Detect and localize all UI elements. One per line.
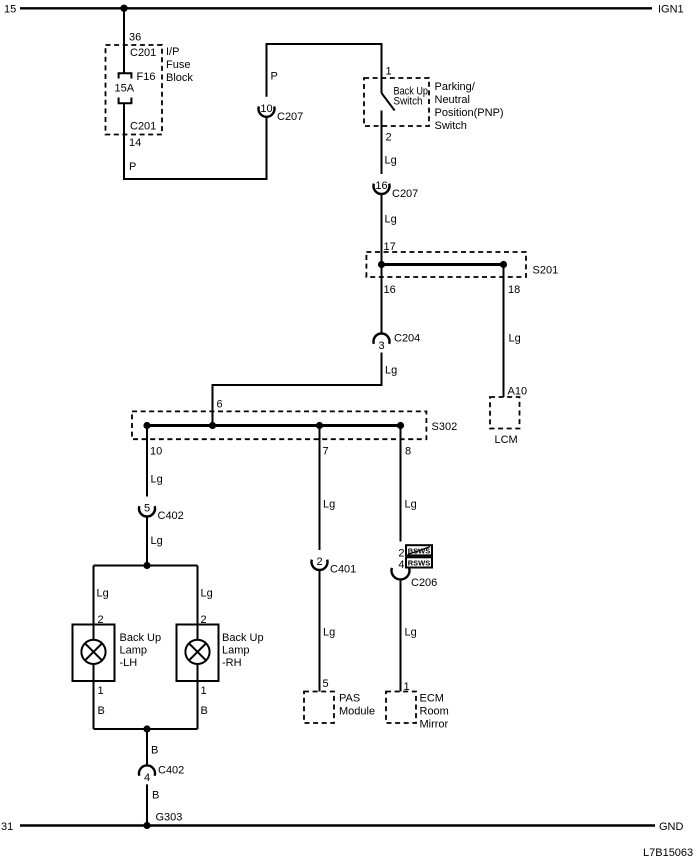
svg-text:Switch: Switch (435, 120, 467, 132)
lamp LH bulb circle (81, 640, 105, 664)
svg-text:PAS: PAS (339, 693, 360, 705)
junction on IGN1 rail (120, 5, 127, 12)
svg-text:8: 8 (405, 446, 411, 458)
wire GND bottom rail (20, 824, 655, 826)
wire P from fuse down and right to C207 (124, 103, 267, 179)
svg-text:IGN1: IGN1 (658, 4, 684, 16)
lamp LH internal wires (93, 625, 95, 730)
wire IGN1 top rail (20, 7, 652, 9)
svg-text:I/P: I/P (166, 46, 179, 58)
svg-text:C201: C201 (130, 47, 156, 59)
wire from tee to C402-4 (146, 729, 148, 765)
svg-text:10: 10 (260, 103, 272, 115)
svg-text:1: 1 (386, 66, 392, 78)
wire lamp bottom tee (94, 728, 198, 730)
svg-text:C204: C204 (394, 333, 420, 345)
svg-text:ECM: ECM (420, 693, 444, 705)
connector C207 pin 16 cup (374, 184, 390, 194)
wire from C402 to lamp tee (146, 517, 148, 566)
svg-text:-RH: -RH (222, 657, 242, 669)
svg-text:G303: G303 (156, 812, 183, 824)
svg-text:4: 4 (398, 559, 404, 571)
svg-text:6: 6 (217, 399, 223, 411)
junction G303 (143, 822, 150, 829)
svg-text:C207: C207 (277, 111, 303, 123)
svg-text:B: B (98, 705, 105, 717)
svg-text:Lg: Lg (405, 499, 417, 511)
svg-text:C401: C401 (330, 564, 356, 576)
switch lower contact wire (381, 111, 383, 175)
svg-text:Lg: Lg (385, 365, 397, 377)
junction S302 pin6 (209, 422, 216, 429)
svg-text:C201: C201 (130, 121, 156, 133)
svg-text:31: 31 (1, 821, 13, 833)
connector C207 pin 10 cup (259, 106, 275, 116)
svg-text:F16: F16 (137, 71, 156, 83)
wire from S302 pin8 down (400, 426, 402, 542)
svg-text:P: P (271, 71, 278, 83)
svg-text:S201: S201 (533, 265, 559, 277)
wire from C402-4 to ground (146, 784, 148, 825)
svg-text:2: 2 (398, 548, 404, 560)
svg-text:10: 10 (150, 446, 162, 458)
connector C402 pin 5 cup (139, 506, 155, 516)
svg-text:Back Up: Back Up (222, 632, 264, 644)
connector C204 pin 3 cup (374, 334, 390, 344)
svg-text:Switch: Switch (394, 96, 423, 108)
lamp RH internal wires (197, 625, 199, 730)
svg-text:3: 3 (378, 340, 384, 352)
Back Up Lamp LH box (73, 625, 115, 682)
svg-text:Room: Room (420, 706, 449, 718)
svg-text:Lg: Lg (385, 214, 397, 226)
wire to RH lamp (197, 566, 199, 625)
svg-text:B: B (152, 790, 159, 802)
svg-text:C206: C206 (411, 577, 437, 589)
lamp LH bulb X (85, 643, 102, 660)
svg-text:P: P (129, 161, 136, 173)
svg-text:Lg: Lg (323, 499, 335, 511)
junction S302 pin8 (397, 422, 404, 429)
svg-text:Lg: Lg (151, 474, 163, 486)
wire from C206 to ECM (400, 580, 402, 692)
svg-text:Lg: Lg (323, 627, 335, 639)
I/P Fuse Block dashed box (106, 45, 163, 135)
wire from C401 to PAS (319, 570, 321, 692)
svg-text:Module: Module (339, 706, 375, 718)
ECM Room Mirror dashed box (386, 692, 416, 724)
connector C402 pin 4 cup (139, 765, 155, 775)
LCM dashed box (490, 397, 520, 429)
svg-text:Back Up: Back Up (120, 632, 162, 644)
connector C206 cup (391, 568, 409, 580)
svg-text:C207: C207 (392, 188, 418, 200)
svg-text:Fuse: Fuse (166, 59, 190, 71)
svg-text:RSWS: RSWS (408, 559, 431, 568)
lamp RH bulb X (189, 643, 206, 660)
svg-text:14: 14 (129, 137, 141, 149)
wire from C204 down left to S302 (213, 353, 382, 426)
splice S302 dashed box (132, 411, 426, 439)
svg-text:GND: GND (659, 821, 684, 833)
svg-text:16: 16 (384, 284, 396, 296)
tag RSWS (406, 557, 432, 567)
svg-text:Block: Block (166, 72, 193, 84)
svg-text:15A: 15A (115, 83, 135, 95)
junction lamp tee (143, 562, 150, 569)
svg-text:5: 5 (144, 503, 150, 515)
svg-text:15: 15 (4, 4, 16, 16)
wire lamp top tee (94, 565, 198, 567)
svg-text:Lamp: Lamp (120, 645, 148, 657)
Back Up Switch dashed box (364, 78, 429, 126)
wire from S302 pin7 down (319, 426, 321, 551)
svg-text:Lg: Lg (151, 535, 163, 547)
svg-text:2: 2 (316, 556, 322, 568)
svg-text:5: 5 (323, 678, 329, 690)
svg-text:B: B (201, 705, 208, 717)
svg-text:1: 1 (201, 685, 207, 697)
connector C401 pin 2 cup (311, 560, 327, 570)
svg-text:7: 7 (323, 446, 329, 458)
Back Up Lamp RH box (177, 625, 219, 682)
splice S201 bus wire (382, 263, 504, 266)
svg-text:Lg: Lg (405, 627, 417, 639)
svg-text:Parking/: Parking/ (435, 81, 476, 93)
svg-text:Position(PNP): Position(PNP) (435, 107, 504, 119)
svg-text:Neutral: Neutral (435, 94, 470, 106)
svg-text:A10: A10 (508, 386, 528, 398)
wire from C207 up and right to PNP switch (267, 44, 382, 97)
svg-text:-LH: -LH (120, 657, 138, 669)
junction S201 right (500, 261, 507, 268)
fuse F16 symbol bottom bracket (119, 98, 132, 104)
svg-text:1: 1 (98, 685, 104, 697)
svg-text:2: 2 (386, 132, 392, 144)
wire from S201 to LCM (503, 265, 505, 398)
svg-text:C402: C402 (158, 510, 184, 522)
svg-text:4: 4 (144, 772, 150, 784)
svg-text:18: 18 (508, 284, 520, 296)
wire from C207-16 to C204 (381, 194, 383, 334)
splice S201 dashed box (366, 252, 526, 277)
fuse F16 symbol top bracket (119, 73, 132, 78)
PAS Module dashed box (304, 692, 334, 724)
svg-text:Lg: Lg (385, 155, 397, 167)
svg-text:LCM: LCM (495, 434, 518, 446)
tag BSWS (struck) (406, 545, 432, 555)
wire to LH lamp (93, 566, 95, 625)
svg-text:Lg: Lg (201, 588, 213, 600)
wire from rail to fuse (123, 8, 125, 73)
lamp RH bulb circle (185, 640, 209, 664)
svg-text:36: 36 (129, 32, 141, 44)
svg-text:S302: S302 (432, 421, 458, 433)
junction S201 left (378, 261, 385, 268)
splice S302 bus wire (147, 424, 401, 427)
svg-text:Mirror: Mirror (420, 719, 449, 731)
svg-text:Lg: Lg (97, 588, 109, 600)
svg-text:Lg: Lg (509, 333, 521, 345)
switch blade (382, 93, 395, 111)
junction lamp bottom tee (143, 725, 150, 732)
svg-text:B: B (151, 745, 158, 757)
svg-text:L7B15063: L7B15063 (643, 847, 693, 859)
junction S302 pin7 (316, 422, 323, 429)
svg-text:Lamp: Lamp (222, 645, 250, 657)
wire from S302 pin10 down (146, 426, 148, 497)
svg-text:16: 16 (375, 180, 387, 192)
junction S302 pin10 (143, 422, 150, 429)
svg-text:C402: C402 (158, 765, 184, 777)
